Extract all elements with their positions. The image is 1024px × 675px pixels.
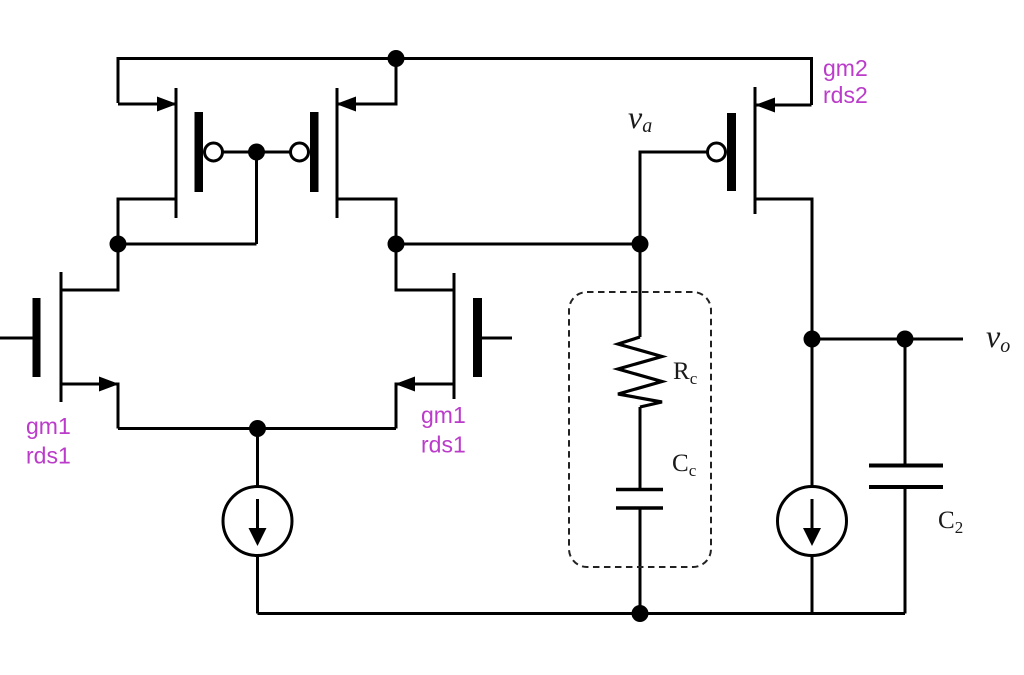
transistor M2 source lead	[396, 384, 454, 429]
node bottom rail dot	[632, 605, 649, 622]
svg-text:C2: C2	[938, 507, 963, 537]
capacitor C2 top wire	[904, 339, 907, 464]
transistor M2 gate bar	[473, 298, 482, 377]
dashed compensation box	[569, 292, 711, 567]
wire Rc to Cc	[639, 407, 642, 488]
svg-text:rds1: rds1	[26, 443, 71, 469]
transistor M1 source arrow	[99, 377, 119, 392]
resistor Rc zigzag	[618, 337, 662, 407]
capacitor Cc top plate	[616, 488, 663, 492]
svg-text:va: va	[628, 99, 652, 137]
transistor M5 source arrow	[755, 98, 775, 113]
transistor M3 drain lead	[118, 199, 176, 244]
transistor M2 source arrow	[395, 377, 415, 392]
node M4 drain dot	[388, 236, 405, 253]
current source I2 arrow	[811, 499, 814, 528]
wire output to current source I2	[811, 339, 814, 487]
transistor M1 (left NMOS) drain lead	[61, 244, 118, 290]
wire Cc to ground rail	[639, 510, 642, 614]
capacitor C2 top plate	[869, 464, 943, 468]
svg-text:Rc: Rc	[673, 358, 698, 388]
wire va node to compensation branch	[639, 244, 642, 337]
capacitor C2 bottom wire	[904, 489, 907, 614]
label gm2 rds2	[823, 55, 868, 108]
wire gate node to M4 gate	[257, 151, 291, 154]
current source I1 arrow	[256, 499, 259, 528]
transistor M4 gate bar	[310, 112, 319, 192]
label gm1 rds1 (left input pair)	[26, 413, 71, 469]
svg-text:rds1: rds1	[421, 432, 466, 458]
transistor M2 (right NMOS) drain lead	[396, 244, 454, 290]
transistor M1 gate lead	[0, 337, 33, 340]
transistor M3 (left PMOS mirror) source lead	[118, 103, 176, 106]
wire M4 drain to second stage gate node	[396, 243, 640, 246]
svg-text:gm2: gm2	[823, 55, 868, 81]
node tail dot	[249, 420, 266, 437]
svg-text:gm1: gm1	[26, 413, 71, 439]
svg-text:rds2: rds2	[823, 82, 868, 108]
node M3 drain dot	[110, 236, 127, 253]
transistor M3 gate bubble	[205, 143, 223, 161]
transistor M5 gate bubble	[708, 143, 726, 161]
transistor M4 drain lead	[337, 199, 396, 244]
current source I2 circle	[778, 487, 847, 556]
wire tail to current source	[256, 429, 259, 488]
current source I1 circle	[223, 487, 292, 556]
capacitor C2 bottom plate	[869, 485, 943, 489]
svg-text:Cc: Cc	[672, 450, 697, 480]
transistor M4 (right PMOS mirror) source lead	[337, 59, 396, 105]
label gm1 rds1 (right input pair)	[421, 402, 466, 458]
wire mirror left drain	[118, 243, 257, 246]
transistor M1 channel	[60, 272, 63, 402]
wire VDD top rail	[118, 59, 812, 106]
svg-text:gm1: gm1	[421, 402, 466, 428]
wire gate node down to diode connection	[255, 152, 258, 244]
wire output node	[812, 338, 963, 341]
transistor M3 source arrow	[157, 97, 177, 112]
wire M3 gate to common gate node	[223, 151, 257, 154]
wire current source I1 to ground rail	[256, 555, 259, 614]
transistor M5 (gm2 PMOS) gate wire from va node	[640, 152, 707, 244]
transistor M5 source lead	[756, 104, 812, 107]
wire tail node	[118, 427, 396, 430]
transistor M1 gate bar	[33, 298, 41, 377]
transistor M3 channel	[175, 88, 178, 218]
node mirror gate dot	[248, 144, 265, 161]
node output left dot	[804, 331, 821, 348]
wire bottom rail	[258, 612, 906, 615]
transistor M4 gate bubble	[291, 143, 309, 161]
transistor M1 source lead	[61, 384, 118, 429]
wire current source I2 to ground rail	[811, 555, 814, 614]
transistor M5 gate bar	[727, 113, 736, 191]
transistor M3 gate bar	[195, 112, 204, 192]
transistor M5 channel	[754, 87, 757, 214]
transistor M4 channel	[336, 88, 339, 218]
svg-text:vo: vo	[986, 318, 1010, 357]
transistor M4 source arrow	[336, 97, 356, 112]
node va junction dot	[632, 236, 649, 253]
transistor M2 gate lead	[482, 337, 512, 340]
transistor M2 channel	[453, 273, 456, 399]
capacitor Cc bottom plate	[616, 506, 663, 510]
node VDD junction dot	[388, 50, 405, 67]
transistor M5 drain lead	[755, 199, 812, 339]
node output right dot	[897, 331, 914, 348]
